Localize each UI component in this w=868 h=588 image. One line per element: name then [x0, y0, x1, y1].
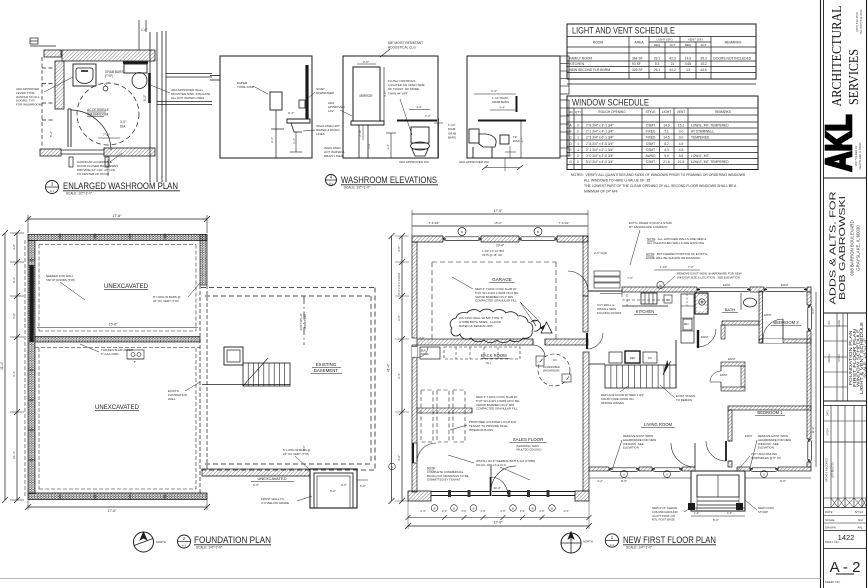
svg-text:A: A — [666, 472, 668, 476]
svg-text:LIGHT AND VENT SCHEDULE: LIGHT AND VENT SCHEDULE — [572, 26, 675, 37]
svg-text:BASEMENT: BASEMENT — [314, 368, 338, 373]
svg-text:1′-4″: 1′-4″ — [292, 138, 296, 144]
svg-text:2′-10″: 2′-10″ — [358, 129, 362, 136]
svg-text:5.6: 5.6 — [679, 154, 684, 158]
svg-text:2: 2 — [577, 124, 579, 128]
svg-text:41′-4″: 41′-4″ — [0, 361, 4, 370]
svg-text:1′-0″: 1′-0″ — [694, 511, 699, 515]
svg-text:20′-4″: 20′-4″ — [496, 244, 505, 248]
svg-text:TO CENTER OF DOOR: TO CENTER OF DOOR — [77, 172, 110, 176]
svg-text:41′-4″: 41′-4″ — [387, 363, 391, 372]
svg-text:DISPENSER: DISPENSER — [316, 91, 335, 95]
svg-text:ADA APPROVED WC: ADA APPROVED WC — [399, 160, 430, 164]
svg-text:6″ GAS GRID: 6″ GAS GRID — [101, 352, 119, 356]
svg-text:WASHROOM: WASHROOM — [87, 113, 108, 117]
svg-text:NORTH: NORTH — [583, 539, 593, 543]
svg-text:608 BARRON BOULEVARD: 608 BARRON BOULEVARD — [850, 220, 855, 275]
svg-text:BACK ROOM: BACK ROOM — [481, 353, 507, 358]
svg-text:B: B — [532, 506, 534, 510]
svg-text:REMARKS: REMARKS — [725, 41, 743, 45]
svg-text:UNEXCAVATED: UNEXCAVATED — [104, 283, 149, 290]
svg-text:DATE: DATE — [837, 320, 841, 327]
svg-text:4′-0″: 4′-0″ — [383, 91, 387, 97]
svg-text:LIVING ROOM: LIVING ROOM — [644, 422, 672, 427]
svg-text:8′-4″: 8′-4″ — [12, 277, 16, 283]
svg-text:FD: FD — [553, 358, 557, 362]
svg-text:3′-4″: 3′-4″ — [425, 114, 431, 118]
svg-text:LIGHT (SF.): LIGHT (SF.) — [657, 38, 673, 42]
svg-text:3′-0″: 3′-0″ — [500, 509, 505, 513]
svg-text:W/SPINDLES @ 5″ OC: W/SPINDLES @ 5″ OC — [751, 456, 781, 460]
svg-text:REQ: REQ — [654, 43, 661, 47]
svg-text:(TYP): (TYP) — [105, 74, 113, 78]
svg-text:5′-6″: 5′-6″ — [713, 518, 719, 522]
svg-text:3′-0″: 3′-0″ — [120, 120, 127, 124]
svg-text:GRAB BARS: GRAB BARS — [492, 100, 509, 104]
svg-text:SCALE: 1/2″=1′-0″: SCALE: 1/2″=1′-0″ — [344, 186, 371, 190]
svg-text:DRAWN: DRAWN — [825, 526, 836, 530]
svg-text:3′-4″: 3′-4″ — [288, 111, 294, 115]
svg-text:EXIST: EXIST — [745, 434, 753, 438]
svg-text:3′-0 3/4″ x 2′-0 3/4″: 3′-0 3/4″ x 2′-0 3/4″ — [586, 154, 614, 158]
svg-text:1′-0″: 1′-0″ — [727, 511, 732, 515]
svg-text:9′-0″: 9′-0″ — [811, 308, 815, 314]
svg-text:A-1: A-1 — [329, 182, 334, 186]
svg-text:FAMILY ROOM: FAMILY ROOM — [570, 56, 593, 60]
svg-text:7′-6 3/4″: 7′-6 3/4″ — [429, 221, 440, 225]
svg-text:A-2: A-2 — [610, 543, 615, 547]
svg-text:ALL UNHATCHED WALLS ARE EXISTI: ALL UNHATCHED WALLS ARE EXISTING — [647, 241, 705, 245]
svg-text:STYLE: STYLE — [645, 110, 655, 114]
svg-text:SCALE: 1/4″=1′-0″: SCALE: 1/4″=1′-0″ — [196, 546, 223, 550]
svg-text:VAULTED CEILING): VAULTED CEILING) — [516, 448, 541, 452]
svg-text:AT STAIRWELL: AT STAIRWELL — [691, 130, 714, 134]
svg-text:ON ALL WALLS & CLG: ON ALL WALLS & CLG — [476, 463, 507, 467]
svg-text:TEL (847) 543-4723: TEL (847) 543-4723 — [859, 9, 863, 34]
svg-text:326 SF: 326 SF — [632, 68, 643, 72]
svg-text:KITCHEN: KITCHEN — [570, 62, 585, 66]
svg-text:21: 21 — [671, 62, 675, 66]
svg-text:ADDS & ALTS. FOR: ADDS & ALTS. FOR — [829, 191, 838, 304]
svg-text:B: B — [473, 506, 475, 510]
svg-text:VENT: VENT — [677, 110, 686, 114]
svg-text:FIXED: FIXED — [646, 130, 656, 134]
svg-text:3′-4″: 3′-4″ — [499, 106, 505, 110]
svg-text:ADA APPROVED WC: ADA APPROVED WC — [459, 160, 490, 164]
svg-text:EXIST: EXIST — [781, 283, 789, 287]
svg-text:14.9: 14.9 — [663, 124, 670, 128]
svg-text:0.0: 0.0 — [679, 136, 684, 140]
svg-text:13: 13 — [686, 68, 690, 72]
svg-text:ALL WINDOWS TO HAVE U-VALUE OF: ALL WINDOWS TO HAVE U-VALUE OF .35 — [584, 179, 650, 183]
svg-text:EXIST: EXIST — [701, 335, 709, 339]
svg-text:EXIST: EXIST — [764, 313, 772, 317]
svg-text:NEW FIRST FLOOR PLAN: NEW FIRST FLOOR PLAN — [623, 535, 716, 545]
svg-text:G: G — [569, 160, 572, 164]
svg-text:KITCHEN: KITCHEN — [636, 309, 654, 314]
svg-text:3′-6″ BELOW GRADE: 3′-6″ BELOW GRADE — [261, 501, 289, 505]
svg-text:7′-6″: 7′-6″ — [103, 133, 111, 137]
svg-text:CSMT: CSMT — [646, 160, 655, 164]
svg-text:LOW-E, INT.: LOW-E, INT. — [691, 154, 710, 158]
svg-text:5/7/14: 5/7/14 — [827, 428, 830, 436]
svg-text:REMARKS: REMARKS — [715, 110, 731, 114]
svg-text:NORTH: NORTH — [156, 540, 166, 544]
svg-text:FOR WASHROOM: FOR WASHROOM — [16, 103, 42, 107]
svg-text:1′-0″: 1′-0″ — [141, 28, 148, 32]
svg-text:5/7/14: 5/7/14 — [837, 354, 841, 362]
svg-text:EXIST: EXIST — [728, 357, 736, 361]
svg-text:BARS: BARS — [448, 136, 456, 140]
svg-text:3′-4″: 3′-4″ — [397, 373, 401, 379]
svg-text:ELEVATION: ELEVATION — [623, 446, 639, 450]
svg-text:THE LOWEST PART OF THE CLEAR O: THE LOWEST PART OF THE CLEAR OPENING OF … — [584, 184, 737, 188]
svg-text:ROOM: ROOM — [593, 41, 604, 45]
svg-text:B: B — [453, 506, 455, 510]
svg-text:6′-0″: 6′-0″ — [780, 479, 786, 483]
svg-text:SCALE: SCALE — [825, 518, 835, 522]
svg-text:AWNG: AWNG — [645, 154, 656, 158]
svg-text:TO REMAIN: TO REMAIN — [676, 398, 692, 402]
svg-text:FOUNDATION PLAN: FOUNDATION PLAN — [194, 535, 271, 545]
svg-text:3′-0″: 3′-0″ — [416, 105, 422, 109]
svg-text:BEDROOM 2: BEDROOM 2 — [773, 320, 799, 325]
svg-text:2: 2 — [577, 160, 579, 164]
svg-text:EXIST: EXIST — [723, 283, 731, 287]
svg-text:2′-5 3/4″ x 6′-1 3/4″: 2′-5 3/4″ x 6′-1 3/4″ — [586, 136, 614, 140]
svg-text:21.6: 21.6 — [663, 160, 670, 164]
svg-text:DIRECTION: DIRECTION — [303, 315, 307, 330]
svg-text:11′-0″: 11′-0″ — [811, 427, 815, 434]
svg-text:CSMT: CSMT — [646, 124, 655, 128]
svg-text:HOME WILL BE SHOWN ON DRAWING: HOME WILL BE SHOWN ON DRAWING — [646, 256, 701, 260]
svg-text:7.1: 7.1 — [664, 130, 669, 134]
svg-text:3′-0″: 3′-0″ — [419, 336, 424, 340]
svg-text:GARAGE: GARAGE — [492, 277, 512, 282]
svg-text:44.6: 44.6 — [700, 68, 707, 72]
svg-text:BATH: BATH — [725, 307, 735, 312]
svg-text:ENLARGED WASHROOM PLAN: ENLARGED WASHROOM PLAN — [63, 181, 178, 191]
svg-text:A - 2: A - 2 — [830, 559, 861, 576]
svg-text:5/7/14: 5/7/14 — [855, 510, 863, 514]
svg-text:3′-0″: 3′-0″ — [461, 509, 466, 513]
svg-text:INTERIOR PLANS: INTERIOR PLANS — [469, 428, 493, 432]
svg-text:17′-6″: 17′-6″ — [494, 521, 503, 525]
svg-text:21.6: 21.6 — [678, 160, 685, 164]
svg-text:N/A: N/A — [858, 518, 863, 522]
svg-text:EXIST: EXIST — [720, 373, 728, 377]
svg-text:SCALE: 1/2″=1′-0″: SCALE: 1/2″=1′-0″ — [66, 192, 93, 196]
svg-text:WINDOW SIZE & LOCATION. SEE E: WINDOW SIZE & LOCATION. SEE ELEVATION — [677, 275, 740, 279]
svg-text:29.1: 29.1 — [654, 56, 661, 60]
svg-text:REF: REF — [630, 356, 636, 360]
svg-text:1517 YALKED LN: 1517 YALKED LN — [854, 146, 858, 167]
svg-text:39.3: 39.3 — [700, 56, 707, 60]
svg-text:ARCHITECTURAL: ARCHITECTURAL — [829, 6, 844, 107]
svg-text:14.5: 14.5 — [663, 136, 670, 140]
svg-text:WASHROOM: WASHROOM — [543, 369, 560, 373]
svg-text:AKL: AKL — [818, 115, 859, 172]
svg-text:24″ OC VERT (TYP): 24″ OC VERT (TYP) — [153, 299, 179, 303]
svg-text:CSMT: CSMT — [646, 142, 655, 146]
svg-text:4′-0″: 4′-0″ — [397, 246, 401, 252]
svg-text:REV: REV — [684, 324, 689, 326]
svg-text:MTL POST BASE: MTL POST BASE — [652, 518, 675, 522]
svg-text:5′-0 3/4″ x 4′-0 3/4″: 5′-0 3/4″ x 4′-0 3/4″ — [586, 160, 614, 164]
svg-text:4′-0″: 4′-0″ — [12, 313, 16, 319]
svg-text:BEDROOM 1: BEDROOM 1 — [757, 410, 783, 415]
svg-text:93 SF: 93 SF — [632, 62, 641, 66]
svg-text:8′-6″: 8′-6″ — [621, 479, 627, 483]
svg-text:UNEXCAVATED: UNEXCAVATED — [95, 404, 140, 411]
svg-text:2′-0″ SQD: 2′-0″ SQD — [594, 251, 607, 255]
svg-text:2′-5 3/4″ x 4′-5 3/4″: 2′-5 3/4″ x 4′-5 3/4″ — [586, 142, 614, 146]
svg-text:5′-6″: 5′-6″ — [360, 484, 366, 488]
svg-text:QTY: QTY — [575, 110, 581, 114]
svg-text:3′-4″: 3′-4″ — [491, 89, 497, 93]
svg-text:(AS-BUILTS): (AS-BUILTS) — [831, 462, 835, 477]
svg-text:ROUGH OPENING: ROUGH OPENING — [598, 110, 626, 114]
svg-text:VENT (SF.): VENT (SF.) — [688, 38, 703, 42]
svg-text:8′-0″ x 4′-0″ PL/FM: 8′-0″ x 4′-0″ PL/FM — [397, 273, 401, 294]
svg-text:10.2: 10.2 — [700, 62, 707, 66]
svg-text:WASHROOM ELEVATIONS: WASHROOM ELEVATIONS — [341, 175, 437, 185]
svg-text:LAV: LAV — [328, 109, 333, 113]
svg-text:SUBMITTED BY TENANT: SUBMITTED BY TENANT — [427, 478, 461, 482]
svg-text:4′-4″: 4′-4″ — [563, 509, 568, 513]
svg-text:26.1: 26.1 — [654, 68, 661, 72]
svg-text:F: F — [569, 154, 571, 158]
svg-text:3′-4″: 3′-4″ — [270, 137, 274, 143]
svg-text:SCALE: 1/4″=1′-0″: SCALE: 1/4″=1′-0″ — [626, 546, 653, 550]
svg-text:TOWL DISP.: TOWL DISP. — [237, 85, 254, 89]
svg-text:6′-2″: 6′-2″ — [143, 94, 147, 101]
svg-text:DIA: DIA — [120, 124, 126, 128]
svg-text:2′-1 3/4″ x 4′-1 3/4″: 2′-1 3/4″ x 4′-1 3/4″ — [586, 130, 614, 134]
svg-text:2: 2 — [577, 154, 579, 158]
svg-text:1: 1 — [577, 148, 579, 152]
svg-text:STOOP: STOOP — [758, 510, 768, 514]
svg-text:DATE: DATE — [827, 409, 830, 416]
svg-text:6′-0″: 6′-0″ — [253, 483, 259, 487]
svg-text:B: B — [537, 230, 539, 234]
svg-text:AREA: AREA — [634, 41, 644, 45]
svg-text:ACT: ACT — [701, 43, 707, 47]
svg-text:3′-0″: 3′-0″ — [480, 509, 485, 513]
svg-text:JSTS @ 16″ OC: JSTS @ 16″ OC — [482, 253, 502, 257]
svg-text:5′-2″: 5′-2″ — [49, 131, 53, 137]
svg-text:CSMT: CSMT — [646, 148, 655, 152]
svg-text:TAP AT DOORS (TYP): TAP AT DOORS (TYP) — [46, 278, 75, 282]
svg-text:15′-0″: 15′-0″ — [494, 221, 502, 225]
svg-text:LIGHT: LIGHT — [662, 110, 671, 114]
svg-text:A: A — [391, 465, 393, 469]
svg-text:5″: 5″ — [134, 360, 137, 364]
svg-text:3′-0″: 3′-0″ — [341, 483, 347, 487]
svg-text:3′-4″: 3′-4″ — [12, 371, 16, 377]
svg-text:B: B — [512, 506, 514, 510]
svg-text:4′-0″: 4′-0″ — [397, 455, 401, 461]
svg-text:GRAYSLAKE, IL 60030: GRAYSLAKE, IL 60030 — [856, 225, 861, 271]
svg-text:LINES: LINES — [316, 132, 325, 136]
svg-text:14.6: 14.6 — [685, 56, 692, 60]
svg-text:B: B — [434, 506, 436, 510]
svg-text:42.3: 42.3 — [669, 56, 676, 60]
svg-text:4′-2″: 4′-2″ — [597, 479, 603, 483]
svg-text:COMPACTED GRANULAR FILL: COMPACTED GRANULAR FILL — [475, 299, 517, 303]
svg-text:A-1: A-1 — [50, 189, 55, 193]
svg-text:1: 1 — [577, 142, 579, 146]
svg-text:3′-0″: 3′-0″ — [442, 509, 447, 513]
svg-text:7′-6 3/4″: 7′-6 3/4″ — [559, 221, 570, 225]
svg-text:PANEL: PANEL — [421, 353, 430, 356]
svg-text:2′-4″: 2′-4″ — [367, 143, 371, 149]
svg-text:SHEET NO.: SHEET NO. — [825, 580, 841, 584]
svg-text:17′-6″: 17′-6″ — [494, 209, 503, 213]
svg-text:ACCESSIBLE: ACCESSIBLE — [87, 108, 110, 112]
svg-text:B: B — [461, 230, 463, 234]
svg-text:4.5: 4.5 — [679, 142, 684, 146]
svg-text:1′-10″: 1′-10″ — [660, 265, 667, 269]
svg-text:MINIMUM OF 24″ AFF: MINIMUM OF 24″ AFF — [584, 190, 618, 194]
svg-text:DOORS NOT INCLUDED: DOORS NOT INCLUDED — [714, 56, 752, 60]
svg-text:TEMPERED: TEMPERED — [691, 136, 710, 140]
svg-text:4′-0″: 4′-0″ — [12, 244, 16, 250]
svg-text:DETAIL: DETAIL — [827, 353, 831, 362]
svg-text:ALL HOT WATER LINES: ALL HOT WATER LINES — [171, 96, 204, 100]
svg-text:2′-0″: 2′-0″ — [363, 60, 369, 64]
svg-text:NO: NO — [568, 110, 573, 114]
svg-text:4.5: 4.5 — [679, 148, 684, 152]
svg-text:364 SF: 364 SF — [632, 56, 643, 60]
svg-text:15′-0″: 15′-0″ — [109, 323, 118, 327]
svg-text:SCALE: 1/4″=1′-0″: SCALE: 1/4″=1′-0″ — [863, 337, 867, 378]
svg-text:7′-0″: 7′-0″ — [627, 276, 633, 280]
svg-text:WINDOW SCHEDULE: WINDOW SCHEDULE — [572, 98, 649, 109]
svg-text:(N.): (N.) — [486, 361, 491, 365]
svg-text:2: 2 — [577, 130, 579, 134]
svg-text:EXISTING: EXISTING — [316, 362, 337, 367]
svg-text:9.3: 9.3 — [655, 62, 660, 66]
svg-text:2′-8 3/4″ x 3′-1 3/4″: 2′-8 3/4″ x 3′-1 3/4″ — [586, 124, 614, 128]
svg-text:WALL: WALL — [168, 397, 176, 401]
svg-text:21′-4″: 21′-4″ — [12, 451, 16, 459]
svg-text:1′-4″: 1′-4″ — [386, 144, 390, 150]
svg-text:3′-0″: 3′-0″ — [539, 509, 544, 513]
svg-text:MIRROR: MIRROR — [360, 94, 374, 98]
svg-text:FOLDING DOORS: FOLDING DOORS — [597, 311, 621, 315]
svg-text:24″ OC VERT (TYP): 24″ OC VERT (TYP) — [283, 452, 309, 456]
svg-text:17′-6″: 17′-6″ — [108, 509, 117, 513]
svg-text:5′-0″: 5′-0″ — [330, 489, 336, 493]
svg-text:BOB GABROWSKI: BOB GABROWSKI — [838, 196, 847, 300]
svg-text:DATE: DATE — [825, 510, 833, 514]
svg-text:UPDATE RECORDS: UPDATE RECORDS — [825, 458, 829, 482]
svg-text:ACCESSIBLE: ACCESSIBLE — [543, 365, 560, 369]
svg-text:1422: 1422 — [838, 533, 855, 542]
svg-text:NO.: NO. — [827, 320, 831, 325]
svg-text:ELEVATION: ELEVATION — [758, 446, 774, 450]
svg-text:2′-1 3/4″ x 2′-1 3/4″: 2′-1 3/4″ x 2′-1 3/4″ — [586, 148, 614, 152]
svg-text:B: B — [551, 506, 553, 510]
svg-text:4.3: 4.3 — [664, 148, 669, 152]
svg-text:COMPACTED GRANULAR FILL: COMPACTED GRANULAR FILL — [476, 407, 518, 411]
svg-text:ACOUSTICAL CLG: ACOUSTICAL CLG — [388, 45, 416, 49]
svg-text:17′-6″: 17′-6″ — [112, 214, 122, 218]
svg-text:THAN 44″ AFF: THAN 44″ AFF — [388, 91, 408, 95]
svg-text:7′-0″: 7′-0″ — [688, 265, 694, 269]
svg-text:AKL: AKL — [858, 526, 864, 530]
svg-text:8.2: 8.2 — [664, 142, 669, 146]
svg-text:SALES FLOOR: SALES FLOOR — [513, 437, 544, 442]
svg-text:SPRING HINGES: SPRING HINGES — [601, 401, 624, 405]
svg-text:B: B — [660, 283, 662, 287]
svg-text:BY LANDSCAPE COMPANY: BY LANDSCAPE COMPANY — [629, 225, 668, 229]
svg-text:2′-0″: 2′-0″ — [302, 445, 306, 451]
svg-text:30′-4″: 30′-4″ — [494, 486, 501, 490]
svg-text:JOIST MTL AT: JOIST MTL AT — [299, 313, 303, 331]
svg-text:UNEXCAVATED: UNEXCAVATED — [257, 476, 286, 481]
svg-text:PROJ. NO.: PROJ. NO. — [825, 540, 840, 544]
svg-text:A: A — [623, 472, 625, 476]
svg-text:NEW SECOND FLR BDRM: NEW SECOND FLR BDRM — [570, 68, 611, 72]
svg-text:GRAYSLAKE, IL 60030: GRAYSLAKE, IL 60030 — [858, 142, 862, 170]
svg-text:ACT: ACT — [670, 43, 676, 47]
svg-text:SERVICES: SERVICES — [846, 49, 861, 105]
svg-text:3′-0″: 3′-0″ — [520, 509, 525, 513]
svg-text:DRAIN LINES: DRAIN LINES — [324, 154, 343, 158]
svg-text:15.2: 15.2 — [678, 124, 685, 128]
svg-text:A: A — [763, 472, 765, 476]
svg-text:A-2: A-2 — [182, 544, 187, 548]
svg-text:6′-0″: 6′-0″ — [397, 315, 401, 321]
svg-text:LOW-E, INT. TEMPERED: LOW-E, INT. TEMPERED — [691, 124, 729, 128]
svg-text:NOTES: VERIFY ALL QUANTITIES: NOTES: VERIFY ALL QUANTITIES AND SIZES O… — [571, 173, 746, 177]
svg-text:5.6: 5.6 — [664, 154, 669, 158]
svg-text:LOW-E, INT. TEMPERED: LOW-E, INT. TEMPERED — [691, 160, 729, 164]
svg-text:REQ: REQ — [685, 43, 692, 47]
svg-text:4.65: 4.65 — [685, 62, 692, 66]
svg-text:0.0: 0.0 — [679, 130, 684, 134]
svg-text:44.2: 44.2 — [669, 68, 676, 72]
svg-text:RATED UL DESIGN U305: RATED UL DESIGN U305 — [459, 324, 493, 328]
svg-text:1: 1 — [577, 136, 579, 140]
svg-text:1′-7″: 1′-7″ — [520, 137, 524, 143]
svg-text:DO: DO — [648, 356, 652, 360]
svg-text:FIXED: FIXED — [646, 136, 656, 140]
svg-text:4′-4″: 4′-4″ — [420, 509, 425, 513]
